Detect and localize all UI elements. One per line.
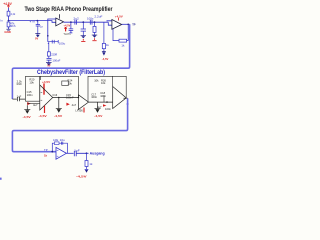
supply arrow up — [7, 5, 9, 8]
supply stub red below U3 — [44, 106, 46, 113]
wire to V- (filter input leg) — [26, 105, 28, 109]
svg-text:R19: R19 — [17, 82, 22, 86]
supply arrow down (R7) — [85, 168, 89, 170]
wire R2 to ground — [8, 27, 10, 29]
svg-text:10k: 10k — [53, 138, 59, 142]
node E junction — [82, 21, 84, 23]
wire U4 output to U5 — [89, 101, 113, 103]
resistor R4 leg — [94, 22, 96, 26]
U6 input marks — [57, 150, 59, 156]
capacitor C3 (U1 leg to ground) — [47, 56, 52, 62]
svg-text:10k: 10k — [67, 81, 72, 85]
wire leg down (U4 out region) — [97, 102, 99, 108]
wire R1 to node A — [8, 16, 10, 21]
U3 input marks — [41, 92, 43, 100]
node junction (output node) — [86, 152, 88, 154]
wire U1 inverting input to feedback node — [48, 19, 56, 42]
node B junction — [37, 20, 39, 22]
supply wire red into U3 — [43, 83, 45, 94]
stray mark left edge — [0, 178, 2, 180]
ground symbol (C3) — [46, 61, 52, 64]
svg-text:C16: C16 — [52, 93, 57, 97]
node junction (U3 out) — [58, 97, 60, 99]
wire U3 output — [53, 97, 79, 99]
svg-text:4u7: 4u7 — [97, 105, 102, 109]
node F junction — [94, 21, 96, 23]
wire from +4,5V down to R1 — [8, 8, 10, 11]
supply stub red below U4 — [83, 108, 85, 113]
svg-text:GND: GND — [4, 30, 11, 34]
wire U6 output — [66, 152, 73, 154]
feedback loop U2: R6 — [113, 24, 128, 40]
red stub U2 supply — [118, 18, 120, 21]
svg-text:-4,5V: -4,5V — [76, 174, 87, 178]
ground arrow (U4 out leg) — [95, 108, 101, 110]
node junction (rail1 drop) — [78, 97, 80, 99]
svg-text:2,2uF: 2,2uF — [94, 14, 102, 18]
node A junction — [8, 20, 10, 22]
svg-text:1k: 1k — [44, 153, 48, 157]
svg-text:100uF: 100uF — [52, 59, 60, 63]
capacitor C6 series on wire — [90, 20, 92, 25]
svg-text:MKS: MKS — [10, 24, 16, 28]
resistor R1 2,2k (vertical box) — [7, 11, 10, 16]
svg-text:100n: 100n — [100, 94, 106, 98]
red node arrow (filter input node) — [27, 102, 30, 105]
svg-text:1n: 1n — [40, 24, 44, 28]
svg-text:-4,5V: -4,5V — [94, 114, 102, 118]
wire to R7 — [86, 153, 88, 160]
resistor R5 (zigzag) — [102, 43, 105, 48]
svg-text:+4,5V: +4,5V — [63, 23, 70, 27]
svg-text:Two Stage RIAA Phono Preamplif: Two Stage RIAA Phono Preamplifier — [25, 7, 114, 13]
wire C17 vertical — [103, 96, 105, 103]
svg-text:LF356: LF356 — [75, 109, 83, 113]
feedback rail 1 — [40, 76, 78, 97]
supply arrow down (R5) — [102, 50, 106, 53]
node junction (U5 input) — [106, 101, 108, 103]
wire: long route from filter output to output stage — [12, 98, 127, 151]
svg-text:10u: 10u — [60, 138, 66, 142]
wire node A to op-amp U1 — [9, 21, 56, 23]
ground arrow (R4) — [92, 34, 97, 36]
svg-text:10k: 10k — [101, 81, 106, 85]
op-amp U6 (output buffer) — [56, 147, 66, 159]
wire down to R3 — [48, 42, 49, 52]
supply arrow down (filter input leg) — [24, 109, 30, 111]
capacitor C5 short leg — [69, 22, 74, 33]
capacitor C2 (parallel in U1 leg) — [52, 40, 54, 44]
wire rect to U3 input — [27, 102, 40, 104]
svg-text:-4,5V: -4,5V — [39, 114, 47, 118]
svg-text:+4,5V: +4,5V — [115, 14, 123, 18]
resistor R7 (zigzag) — [85, 161, 88, 167]
svg-text:100n: 100n — [27, 93, 33, 97]
ground symbol (C1) — [35, 33, 40, 34]
feedback rail 2 — [88, 76, 126, 102]
capacitor C13 series input — [17, 97, 25, 101]
svg-text:Ausgang: Ausgang — [90, 151, 105, 156]
node D junction — [70, 21, 72, 23]
feedback node bar below U1 — [48, 40, 58, 43]
svg-text:100nF: 100nF — [66, 96, 74, 100]
svg-text:100n: 100n — [91, 95, 97, 99]
capacitor C4 series on wire — [75, 20, 77, 25]
resistor on loop — [54, 142, 59, 145]
wire node F leg down to R5 — [103, 22, 105, 43]
ground arrow (C7) — [81, 35, 86, 37]
resistor R3 220R — [47, 52, 50, 56]
node junction (buffer input) — [51, 151, 53, 153]
red node arrow (U4 input) — [66, 103, 69, 106]
node junction (filter output) — [127, 103, 129, 105]
capacitor on loop — [61, 142, 62, 145]
wire U2 output to corner — [122, 23, 130, 25]
U1 power pin stub — [59, 14, 61, 18]
red ground mark (C7) — [81, 39, 85, 41]
capacitor C1 (to ground) — [36, 21, 40, 34]
ground symbol (input) — [6, 29, 10, 30]
svg-text:220R: 220R — [51, 53, 57, 57]
capacitor C8 series output — [74, 151, 86, 156]
op-amp U1 — [56, 18, 64, 26]
svg-text:0V: 0V — [47, 63, 50, 67]
svg-text:-4,5V: -4,5V — [54, 114, 62, 118]
svg-text:100n: 100n — [105, 107, 111, 111]
wire filter input — [12, 98, 17, 100]
resistor R2 47k (vertical box) — [7, 22, 10, 27]
capacitor C7 leg to ground — [81, 22, 86, 36]
resistor network box R20/R21 — [25, 76, 39, 101]
op-amp U4 (filter stage 2) — [79, 95, 89, 110]
svg-text:+4,5V: +4,5V — [42, 80, 50, 84]
svg-text:10k: 10k — [94, 79, 99, 83]
op-amp U3 (filter stage 1) — [40, 85, 53, 110]
red node arrow (U5 input) — [103, 104, 106, 107]
wire U5 output — [124, 97, 128, 99]
svg-text:TP: TP — [132, 22, 136, 26]
wire: long route from U2 output down and to filter input — [12, 24, 129, 99]
svg-text:10k: 10k — [29, 80, 34, 84]
svg-text:2,2k: 2,2k — [11, 12, 16, 16]
op-amp U5 (filter stage 3) — [113, 87, 127, 109]
wire leg to ground (U3 out) — [58, 98, 60, 109]
ground arrow (U3 out leg) — [56, 108, 62, 110]
svg-text:-4,5V: -4,5V — [102, 57, 109, 61]
wire U1 output to U2 — [64, 21, 112, 25]
capacitor C14 on rail — [62, 81, 69, 85]
op-amp U2 — [112, 20, 122, 30]
svg-text:ChebyshevFilter (FilterLab): ChebyshevFilter (FilterLab) — [37, 70, 105, 76]
svg-text:47n: 47n — [30, 20, 36, 24]
red ground mark (R4) — [92, 38, 96, 40]
node C junction — [47, 35, 49, 37]
feedback loop wire (output buffer) — [52, 143, 67, 153]
svg-text:-4,5V: -4,5V — [23, 115, 31, 119]
node junction feedback/output — [127, 24, 129, 26]
svg-text:100u: 100u — [59, 42, 66, 46]
wire stub to label — [87, 152, 89, 154]
svg-text:TP: TP — [44, 148, 48, 152]
svg-text:4u7: 4u7 — [72, 103, 77, 107]
red tick U1 supply — [64, 27, 67, 31]
svg-text:0V: 0V — [35, 37, 38, 41]
svg-text:1uF: 1uF — [74, 148, 80, 152]
